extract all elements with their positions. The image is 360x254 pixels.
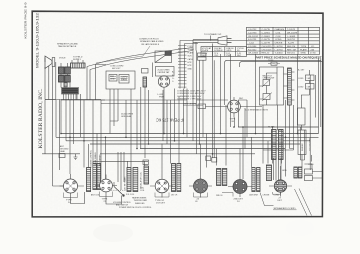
svg-text:DIVIDER: DIVIDER bbox=[302, 143, 304, 151]
svg-text:COND: COND bbox=[298, 87, 304, 89]
svg-text:KOLSTER PAGE 9-9: KOLSTER PAGE 9-9 bbox=[24, 2, 28, 38]
wire center drops bbox=[110, 63, 187, 168]
svg-text:MODEL 9-110,9-105,9-132: MODEL 9-110,9-105,9-132 bbox=[36, 13, 40, 68]
wire tuning section drops bbox=[118, 152, 124, 190]
wire left bus h bbox=[45, 99, 105, 102]
tube V5 2nd det shielded bbox=[228, 175, 252, 197]
speaker label bbox=[57, 43, 78, 49]
svg-text:L-10754: L-10754 bbox=[275, 49, 284, 51]
antenna coupling condenser bbox=[59, 154, 65, 158]
power transformer hatched strip bbox=[288, 68, 292, 105]
svg-text:CATH: CATH bbox=[188, 58, 194, 61]
svg-text:TYPE: TYPE bbox=[102, 199, 108, 201]
bias resistor hatched pair bbox=[294, 167, 302, 178]
bias resistor boxes right bbox=[304, 164, 322, 181]
grid condenser small bbox=[143, 160, 149, 165]
svg-text:TYPE: TYPE bbox=[66, 200, 72, 202]
cathode res label bbox=[249, 195, 258, 197]
tube V1 24 RF bbox=[60, 174, 85, 198]
condenser bank box bbox=[298, 108, 306, 125]
svg-text:CH-10225: CH-10225 bbox=[262, 46, 273, 48]
svg-text:COIL: COIL bbox=[140, 190, 144, 192]
tube V4 label bbox=[195, 199, 200, 204]
osc coil hatched bbox=[144, 166, 149, 184]
svg-text:PLATE: PLATE bbox=[300, 48, 307, 51]
voltage switch label bbox=[263, 75, 275, 80]
grid cap V6 note bbox=[282, 170, 287, 172]
dynamic speaker plug bbox=[193, 36, 232, 45]
svg-text:G BIAS: G BIAS bbox=[188, 48, 195, 51]
svg-text:GRID: GRID bbox=[301, 53, 307, 55]
voltage switch condenser 2 bbox=[262, 93, 272, 102]
svg-text:CON: CON bbox=[276, 36, 281, 38]
svg-text:LEAD: LEAD bbox=[60, 150, 66, 153]
svg-text:CR-10584: CR-10584 bbox=[248, 53, 259, 55]
svg-text:C-10753: C-10753 bbox=[248, 32, 257, 34]
cathode bracket V3 bbox=[155, 193, 169, 198]
schematic border frame bbox=[32, 11, 323, 217]
svg-text:OSC: OSC bbox=[214, 55, 219, 57]
parts table grid bbox=[247, 27, 320, 54]
svg-text:TYPE: TYPE bbox=[301, 46, 307, 48]
tube V2 27 osc bbox=[95, 175, 117, 198]
wire output box drops bbox=[61, 94, 106, 180]
if trans 2 label bbox=[216, 195, 223, 197]
svg-text:CENTER TAP: CENTER TAP bbox=[158, 71, 171, 74]
svg-text:CHOKE: CHOKE bbox=[263, 195, 270, 197]
svg-text:1ST I.F.: 1ST I.F. bbox=[171, 195, 178, 197]
svg-text:L-10753: L-10753 bbox=[275, 46, 284, 48]
if transformer can 2 bbox=[217, 169, 227, 186]
power section enclosure edge bbox=[225, 60, 321, 105]
svg-text:T-10573: T-10573 bbox=[287, 29, 296, 31]
condenser notes block bbox=[158, 69, 171, 74]
wire center horizontals bbox=[101, 100, 196, 121]
bus wire ground bbox=[66, 140, 310, 142]
label pointer line bbox=[96, 46, 150, 63]
svg-text:SPEAKER CABLE USED: SPEAKER CABLE USED bbox=[140, 40, 164, 43]
svg-text:P 245: P 245 bbox=[188, 46, 193, 48]
wire V1 cathode return bbox=[71, 192, 85, 204]
cathode bracket V5 bbox=[222, 193, 233, 197]
svg-text:GRID: GRID bbox=[226, 50, 232, 52]
resistor unit small box A bbox=[306, 75, 315, 81]
parts table cell text bbox=[248, 28, 316, 55]
svg-text:GND: GND bbox=[188, 68, 193, 70]
wire plug drops bbox=[193, 40, 196, 51]
svg-text:RES .5M: RES .5M bbox=[287, 49, 296, 51]
svg-text:C-10901: C-10901 bbox=[262, 32, 271, 34]
svg-text:TAN RECEPTACLE: TAN RECEPTACLE bbox=[58, 45, 77, 48]
line fuse symbol bbox=[268, 62, 280, 65]
svg-text:I.F.: I.F. bbox=[195, 201, 198, 203]
svg-text:HTR: HTR bbox=[188, 62, 193, 64]
cathode bracket V4 bbox=[194, 193, 208, 198]
hum resistor bbox=[64, 83, 67, 88]
svg-text:REC: REC bbox=[239, 98, 244, 100]
grid resistor box above tube bbox=[156, 67, 175, 77]
cathode resistor pair bbox=[252, 168, 260, 192]
svg-text:CONDENSER 1. MFD 400 V: CONDENSER 1. MFD 400 V bbox=[177, 99, 202, 101]
wire speaker to coils bbox=[45, 58, 56, 100]
wire transformer leads bbox=[284, 72, 295, 100]
wire legend label bbox=[183, 104, 198, 106]
svg-text:2ND DET: 2ND DET bbox=[234, 199, 244, 201]
svg-text:SCREEN: SCREEN bbox=[214, 50, 223, 52]
svg-text:R-10642: R-10642 bbox=[248, 49, 257, 51]
svg-text:COND: COND bbox=[298, 78, 304, 80]
tube V3 24 if bbox=[150, 174, 173, 198]
coupling boxes above if can bbox=[206, 156, 211, 161]
svg-text:27-80: 27-80 bbox=[310, 53, 316, 55]
tube V6 label bbox=[278, 197, 283, 202]
resistor unit labels bbox=[298, 70, 311, 89]
svg-text:CH-10226: CH-10226 bbox=[262, 49, 273, 51]
svg-text:T-10644: T-10644 bbox=[275, 53, 284, 55]
svg-text:M-2791: M-2791 bbox=[288, 39, 296, 41]
bias resistor vertical bbox=[143, 77, 147, 87]
filter cond label bbox=[274, 195, 280, 197]
svg-text:REC: REC bbox=[237, 55, 242, 57]
cathode bracket V2 bbox=[100, 192, 113, 197]
connector plug label bbox=[139, 39, 164, 46]
bus wire heater 2 bbox=[56, 136, 319, 138]
svg-text:COND .01 MFD: COND .01 MFD bbox=[110, 66, 124, 68]
parts table left extension grid bbox=[201, 47, 247, 57]
parts price schedule bold row bbox=[256, 57, 323, 60]
resistor unit small box B bbox=[306, 84, 315, 90]
wire V2 cathode return bbox=[106, 196, 122, 205]
magnet coil winding pair bbox=[59, 76, 71, 83]
power pack box bbox=[260, 67, 284, 105]
svg-text:C-10775: C-10775 bbox=[262, 39, 271, 41]
wire cable drop bends bbox=[87, 65, 106, 100]
svg-text:VOLUME CONTROL: VOLUME CONTROL bbox=[91, 150, 93, 168]
svg-text:TRANS: TRANS bbox=[121, 78, 128, 81]
svg-text:TWISTED PAIR: TWISTED PAIR bbox=[134, 199, 148, 202]
svg-text:COND: COND bbox=[308, 164, 314, 166]
svg-text:2ND I.F.: 2ND I.F. bbox=[216, 195, 223, 197]
wire rectifier right bbox=[240, 106, 262, 108]
wire det grid group bbox=[274, 158, 282, 181]
tube V6 27 bbox=[269, 175, 292, 197]
osc coil label bbox=[140, 188, 145, 193]
tube V4 24 shielded bbox=[189, 175, 212, 198]
wire mid drops bbox=[193, 36, 256, 180]
svg-text:C-10801: C-10801 bbox=[262, 36, 271, 38]
svg-text:HTR: HTR bbox=[188, 65, 193, 67]
ground lug box bbox=[198, 104, 206, 109]
tuning condenser switch bbox=[114, 182, 124, 196]
svg-text:C-10752: C-10752 bbox=[248, 29, 257, 31]
svg-text:K-10723: K-10723 bbox=[248, 39, 257, 41]
power tube 45 bbox=[158, 76, 169, 94]
svg-text:CHOKE: CHOKE bbox=[275, 43, 283, 45]
svg-text:TO DYNAMIC SP.: TO DYNAMIC SP. bbox=[204, 33, 222, 36]
svg-text:L-10481: L-10481 bbox=[288, 36, 297, 38]
choke label bbox=[263, 195, 270, 197]
ladder terminal labels bbox=[172, 46, 195, 83]
svg-text:HEATER WIRES: HEATER WIRES bbox=[132, 197, 147, 200]
svg-text:SPEAKER CORD: SPEAKER CORD bbox=[274, 207, 297, 210]
filter block strip 2 bbox=[279, 130, 284, 160]
rf coil can 2 bbox=[127, 168, 138, 192]
svg-text:DR-10478: DR-10478 bbox=[287, 32, 298, 34]
svg-text:CONDENSER .5 MFD 200 V: CONDENSER .5 MFD 200 V bbox=[177, 96, 202, 98]
svg-text:FILTER: FILTER bbox=[268, 127, 275, 129]
faint paper smudge bbox=[93, 224, 133, 242]
svg-text:CHANGE SW: CHANGE SW bbox=[263, 77, 275, 80]
output stage shield box bbox=[106, 71, 135, 89]
grid leak label bbox=[121, 114, 134, 119]
svg-text:KOLSTER RADIO, INC.: KOLSTER RADIO, INC. bbox=[38, 88, 44, 149]
filter block strip 1 bbox=[272, 130, 277, 160]
rf coil can 1 bbox=[93, 164, 101, 190]
svg-text:K-278: K-278 bbox=[288, 43, 295, 45]
bus wire cathode bbox=[42, 153, 255, 155]
wire grid drops to tubes bbox=[70, 108, 281, 175]
wire divider connections bbox=[301, 70, 310, 167]
speaker cord bend wire bbox=[260, 193, 274, 206]
loudspeaker horn bbox=[45, 56, 55, 69]
wire right drops bbox=[263, 54, 316, 177]
svg-text:CHASSIS: CHASSIS bbox=[275, 28, 285, 31]
filter label bbox=[268, 127, 275, 129]
svg-text:DET: DET bbox=[278, 200, 283, 202]
svg-text:CR-10132: CR-10132 bbox=[248, 36, 259, 38]
switch box with diagonal bbox=[155, 51, 172, 63]
svg-text:SUPPLY: SUPPLY bbox=[73, 59, 82, 61]
speaker cable receptacle bbox=[62, 88, 79, 95]
condenser small box bbox=[142, 69, 149, 74]
svg-text:C-10779: C-10779 bbox=[262, 43, 271, 45]
inner enclosure edge bbox=[240, 62, 323, 67]
svg-text:SW 201: SW 201 bbox=[287, 53, 296, 55]
svg-text:IF PEAK 175 KC: IF PEAK 175 KC bbox=[156, 118, 184, 123]
svg-text:1ST DET: 1ST DET bbox=[156, 203, 166, 205]
tube V2 label bbox=[102, 199, 108, 204]
line fuse stack bbox=[198, 53, 207, 60]
svg-text:CONNECTOR PLUG: CONNECTOR PLUG bbox=[139, 39, 159, 41]
cathode bracket V1 bbox=[64, 193, 78, 198]
bus wire avc bbox=[140, 148, 285, 150]
svg-text:PART PRICE SCHEDULE MAILED ON: PART PRICE SCHEDULE MAILED ON REQUEST bbox=[256, 57, 323, 60]
wire coil junctions bbox=[61, 74, 70, 88]
svg-text:1ST RF TRANS: 1ST RF TRANS bbox=[124, 176, 127, 190]
svg-text:VOICE: VOICE bbox=[59, 58, 66, 60]
heater wires label bbox=[132, 197, 147, 205]
svg-text:OHM: OHM bbox=[110, 79, 115, 81]
tube V5 label bbox=[234, 199, 244, 204]
divider label bbox=[310, 137, 312, 151]
field supply label bbox=[73, 57, 83, 62]
svg-text:RES-20: RES-20 bbox=[262, 53, 270, 55]
svg-text:SHIELDED: SHIELDED bbox=[135, 203, 145, 205]
notes list block bbox=[177, 91, 206, 101]
svg-text:COIL: COIL bbox=[276, 32, 282, 34]
svg-text:OSCILLATOR COIL: OSCILLATOR COIL bbox=[140, 172, 143, 189]
rf coil label bbox=[126, 194, 134, 196]
svg-text:R.F. COIL: R.F. COIL bbox=[126, 194, 134, 196]
receptacle pins bbox=[64, 94, 77, 100]
switch label bbox=[113, 202, 131, 207]
svg-text:400 VOLT: 400 VOLT bbox=[112, 68, 121, 70]
wire right riser pair bbox=[310, 59, 321, 171]
svg-text:25,000 OHMS: 25,000 OHMS bbox=[121, 114, 134, 116]
volume control strip bbox=[87, 168, 91, 192]
output transformer winding pair bbox=[59, 67, 71, 74]
svg-text:10M OHM: 10M OHM bbox=[249, 195, 258, 197]
voltage switch condenser 1 bbox=[262, 79, 271, 88]
grid resistor block bbox=[109, 75, 117, 82]
wire misc horizontals bbox=[197, 100, 305, 160]
svg-text:GRID: GRID bbox=[282, 170, 287, 172]
tube V1 label bbox=[66, 200, 72, 205]
junction dots bbox=[60, 126, 298, 154]
svg-text:ON LATE MODELS: ON LATE MODELS bbox=[141, 43, 160, 46]
if transformer can 1 bbox=[172, 164, 181, 192]
wire ladder to table bbox=[180, 41, 247, 44]
ground symbol bbox=[74, 154, 78, 160]
terminal ladder strip bbox=[178, 44, 187, 89]
speaker cable conductors bbox=[87, 48, 193, 70]
speaker field coil bar bbox=[71, 63, 86, 68]
rectifier tube 80 bbox=[228, 97, 241, 118]
cathode bracket V6 bbox=[273, 192, 281, 194]
output box labels bbox=[110, 66, 129, 82]
faint paper smudge bbox=[286, 220, 314, 236]
svg-text:COND: COND bbox=[274, 195, 280, 197]
wire field coil leads bbox=[61, 60, 83, 68]
voltage divider tall box bbox=[298, 130, 306, 155]
power switch label bbox=[119, 207, 152, 209]
wire rectifier left bbox=[206, 106, 228, 108]
svg-text:TYPE 24: TYPE 24 bbox=[155, 200, 165, 202]
ant coil label bbox=[91, 194, 100, 197]
tube 80 label bbox=[230, 119, 236, 124]
bus wire screen bbox=[90, 143, 300, 145]
switch linkage dashed bbox=[109, 189, 129, 191]
if trans label bbox=[171, 195, 178, 197]
wire left long risers bbox=[45, 100, 64, 187]
svg-text:RES 1M: RES 1M bbox=[287, 46, 295, 48]
speaker cord label bbox=[274, 207, 297, 210]
svg-text:25,000 OHMS: 25,000 OHMS bbox=[158, 69, 171, 71]
bus wire B+ bbox=[238, 126, 319, 128]
svg-text:SPEAKER PLUG AND: SPEAKER PLUG AND bbox=[57, 43, 78, 46]
svg-text:COND: COND bbox=[275, 39, 282, 41]
coupling condenser block bbox=[119, 75, 129, 84]
svg-text:SCR: SCR bbox=[188, 56, 193, 58]
filter choke can bbox=[266, 165, 271, 181]
antenna label block bbox=[60, 145, 69, 153]
svg-text:C-54: C-54 bbox=[249, 43, 255, 45]
svg-text:PWR: PWR bbox=[159, 97, 165, 99]
tube V3 label bbox=[155, 200, 166, 205]
wire power pack internal bbox=[260, 67, 278, 105]
bus wire heater 1 bbox=[61, 133, 319, 135]
svg-text:C-10584: C-10584 bbox=[248, 46, 257, 48]
svg-text:B+ DET: B+ DET bbox=[298, 70, 305, 72]
wire can top link bbox=[93, 161, 148, 167]
svg-text:VOLT DIVIDER: VOLT DIVIDER bbox=[310, 137, 312, 151]
svg-text:ANT COIL: ANT COIL bbox=[91, 194, 100, 197]
tube 45 label bbox=[158, 94, 165, 99]
svg-text:CONDENSER .00025 MFD 200 V: CONDENSER .00025 MFD 200 V bbox=[177, 91, 206, 93]
svg-text:VO: VO bbox=[311, 46, 314, 48]
svg-text:PLATE: PLATE bbox=[202, 49, 209, 52]
power cord diagonals bbox=[295, 189, 312, 216]
svg-text:GRID LEAK: GRID LEAK bbox=[121, 115, 132, 118]
svg-text:C-10735: C-10735 bbox=[262, 29, 271, 31]
svg-text:POWER SWITCH ON VOL CONTROL: POWER SWITCH ON VOL CONTROL bbox=[119, 207, 152, 209]
svg-text:CONDENSER .0005 MFD 200 V: CONDENSER .0005 MFD 200 V bbox=[177, 93, 205, 95]
svg-text:(C) 4 RESISTANCE UNITS: (C) 4 RESISTANCE UNITS bbox=[245, 109, 269, 112]
